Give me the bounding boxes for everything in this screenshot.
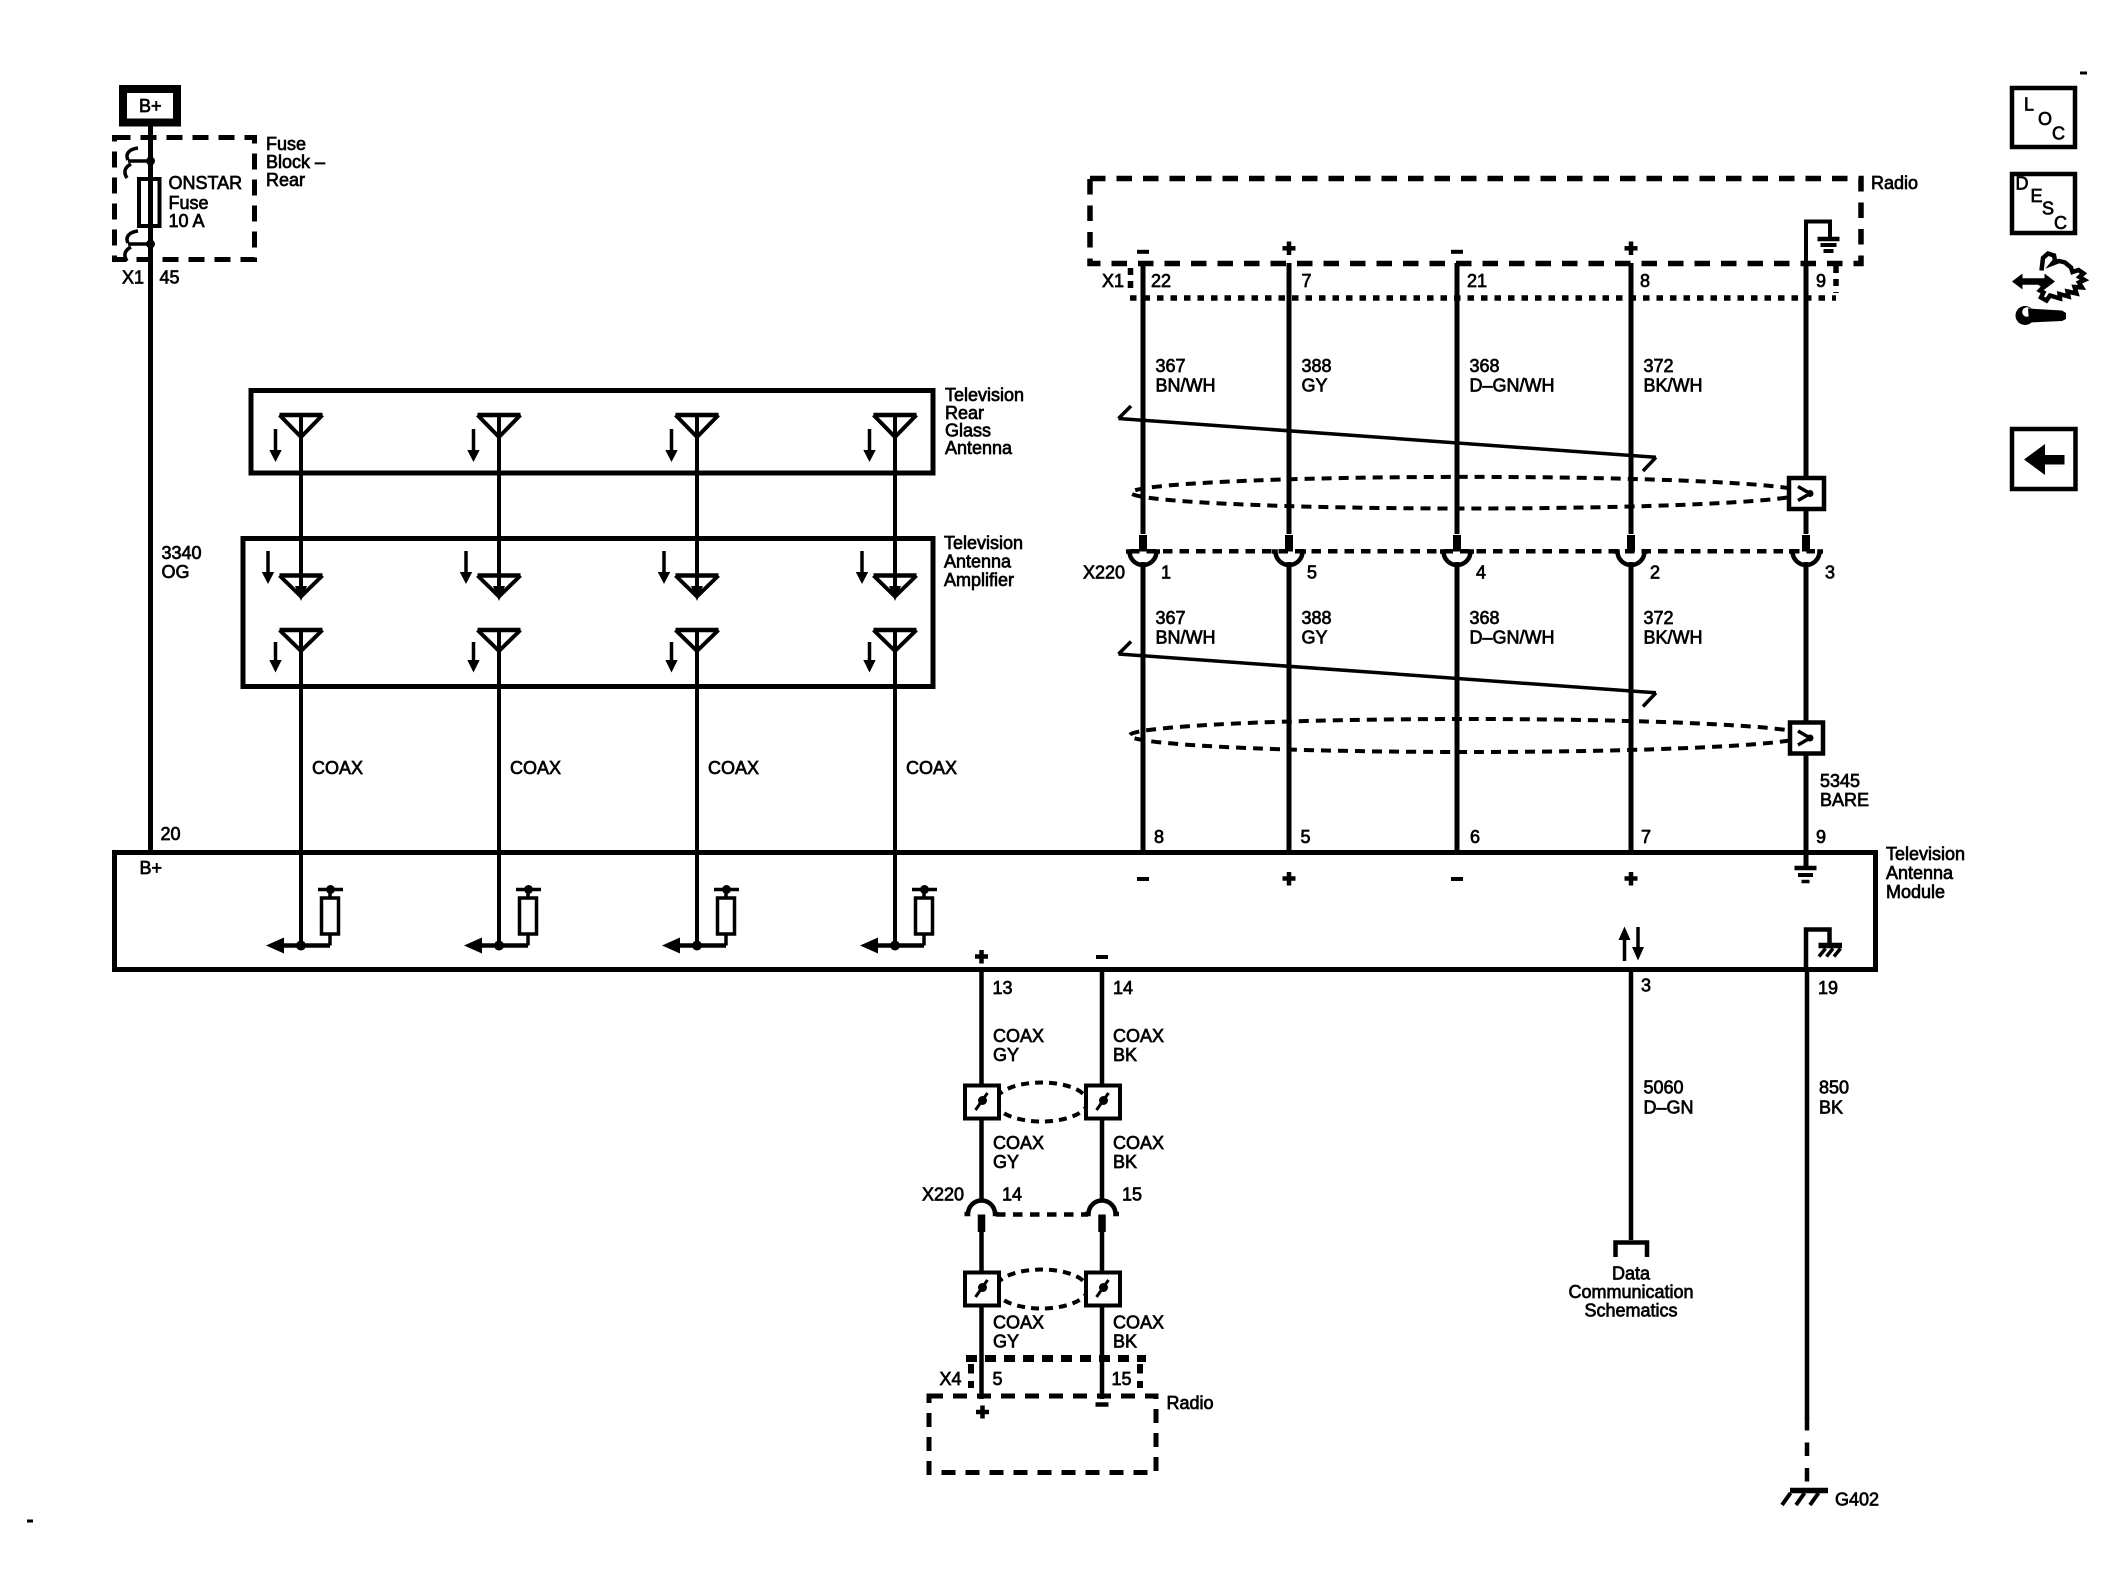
X220 lower terminal (socket + male pin): [1085, 1201, 1119, 1215]
svg-text:GY: GY: [1302, 628, 1328, 648]
svg-text:15: 15: [1122, 1185, 1142, 1205]
connector X220 lower band: [996, 1212, 1088, 1217]
radio dashed box: [1090, 179, 1861, 264]
in-line connector 1b: [1086, 1086, 1120, 1119]
svg-text:Amplifier: Amplifier: [944, 570, 1014, 590]
wire from X220 pin 1 to module: [1141, 562, 1146, 852]
svg-text:Schematics: Schematics: [1584, 1301, 1677, 1321]
svg-text:Television: Television: [945, 385, 1024, 405]
connector X1 dotted band: [1130, 295, 1836, 301]
antenna element amplifier row2 #4: [874, 628, 917, 633]
svg-text:10 A: 10 A: [169, 211, 205, 231]
in-line connector 2a: [965, 1273, 999, 1306]
antenna element amplifier row1 #1: [266, 551, 270, 574]
svg-text:BK: BK: [1113, 1152, 1137, 1172]
twisted pair pointer arrow 1: [1119, 419, 1657, 458]
page mark top right: [2080, 72, 2087, 75]
polarity minus at radio pin 22: [1137, 250, 1149, 254]
svg-text:OG: OG: [162, 562, 190, 582]
svg-text:Fuse: Fuse: [266, 134, 306, 154]
svg-text:COAX: COAX: [708, 758, 759, 778]
svg-text:Module: Module: [1886, 882, 1945, 902]
television rear glass antenna box: [251, 391, 933, 474]
module internal ground at pin 9: [1804, 852, 1809, 866]
coax wire segment 4a (rear glass antenna to amplifier row 1): [893, 415, 897, 589]
coax wire (module pin 14) segment d: [1100, 1305, 1105, 1399]
svg-text:22: 22: [1151, 271, 1171, 291]
X220 terminal pin 2 (male pin + socket): [1627, 535, 1635, 552]
coax wire segment 1a (rear glass antenna to amplifier row 1): [299, 415, 303, 589]
wire battery feed 3340 OG from B+ to module pin 20: [148, 126, 153, 852]
polarity plus at module pin 7: [1625, 876, 1638, 881]
svg-text:BARE: BARE: [1820, 790, 1869, 810]
coax wire segment 2b (amplifier to module): [497, 630, 501, 946]
coax wire (module pin 13) segment a: [979, 969, 984, 1086]
svg-text:1: 1: [1161, 563, 1171, 583]
coax wire segment 3a (rear glass antenna to amplifier row 1): [695, 415, 699, 589]
svg-text:BK: BK: [1113, 1332, 1137, 1352]
svg-text:372: 372: [1644, 356, 1674, 376]
radio internal ground at pin 9: [1806, 222, 1830, 264]
svg-text:5: 5: [993, 1369, 1003, 1389]
svg-text:G402: G402: [1835, 1490, 1879, 1510]
svg-text:COAX: COAX: [312, 758, 363, 778]
svg-text:BK/WH: BK/WH: [1644, 376, 1703, 396]
termination network (resistor + arrow) #4: [877, 943, 924, 948]
radio wire from X1 pin 21 to X220: [1455, 263, 1460, 534]
svg-text:5060: 5060: [1644, 1078, 1684, 1098]
svg-text:BK: BK: [1819, 1098, 1843, 1118]
polarity plus at radio pin 8: [1625, 246, 1638, 251]
svg-text:O: O: [2038, 109, 2052, 129]
svg-text:Fuse: Fuse: [169, 193, 209, 213]
television antenna module box: [115, 853, 1876, 970]
svg-text:COAX: COAX: [993, 1313, 1044, 1333]
antenna element amplifier row2 #1: [280, 628, 323, 633]
antenna element amplifier row2 #2: [478, 628, 521, 633]
svg-text:3: 3: [1825, 563, 1835, 583]
wire from X220 pin 2 to module: [1629, 562, 1634, 852]
coax wire segment 4b (amplifier to module): [893, 630, 897, 946]
antenna element amplifier row1 #3: [662, 551, 666, 574]
sidebar removal/installation icon: [2020, 278, 2047, 285]
coax wire (module pin 13) segment d: [979, 1305, 984, 1399]
svg-text:COAX: COAX: [1113, 1026, 1164, 1046]
coax wire (module pin 14) segment a: [1100, 969, 1105, 1086]
radio ground wire 5345 BARE (pin 9): [1804, 263, 1809, 534]
power symbol B+: [123, 89, 177, 123]
svg-text:7: 7: [1302, 271, 1312, 291]
svg-text:368: 368: [1470, 356, 1500, 376]
svg-text:13: 13: [993, 978, 1013, 998]
polarity plus at radio pin 5 (X4): [976, 1410, 989, 1415]
sidebar back-arrow box: [2012, 429, 2076, 489]
polarity minus at module pin 6: [1451, 877, 1463, 881]
module internal chassis ground (pin 19): [1806, 930, 1830, 968]
svg-text:5345: 5345: [1820, 771, 1860, 791]
svg-text:X1: X1: [1102, 271, 1124, 291]
twisted pair ellipse 1 (dashed): [1131, 477, 1803, 509]
coax wire (module pin 13) segment b: [979, 1118, 984, 1202]
ONSTAR fuse 10A: fuse body: [139, 179, 160, 226]
sidebar LOC box: [2012, 88, 2075, 147]
svg-text:BK: BK: [1113, 1045, 1137, 1065]
module internal data symbol (up/down arrows): [1623, 938, 1627, 961]
svg-text:COAX: COAX: [1113, 1133, 1164, 1153]
wire from X220 pin 3 to module: [1804, 562, 1809, 852]
coax wire (module pin 14) segment b: [1100, 1118, 1105, 1202]
antenna element rear glass #2: [478, 413, 521, 418]
in-line connector 2b: [1086, 1273, 1120, 1306]
svg-text:8: 8: [1640, 271, 1650, 291]
shield drain connector box 1: [1789, 478, 1824, 509]
polarity minus at radio pin 15 (X4): [1096, 1402, 1109, 1407]
svg-text:GY: GY: [993, 1045, 1019, 1065]
svg-text:COAX: COAX: [993, 1026, 1044, 1046]
polarity plus at module pin 13: [975, 954, 988, 959]
svg-text:BN/WH: BN/WH: [1156, 628, 1216, 648]
radio wire from X1 pin 8 to X220: [1629, 263, 1634, 534]
X220 terminal pin 4 (male pin + socket): [1453, 535, 1461, 552]
connector X220 dashed band: [1130, 549, 1815, 554]
svg-text:Television: Television: [944, 533, 1023, 553]
svg-text:D–GN/WH: D–GN/WH: [1470, 376, 1555, 396]
ONSTAR fuse 10A: bottom clip: [127, 231, 138, 243]
svg-text:Block –: Block –: [266, 152, 325, 172]
svg-text:368: 368: [1470, 608, 1500, 628]
polarity plus at module pin 5: [1283, 876, 1296, 881]
data wire 5060 D-GN (module pin 3): [1629, 969, 1634, 1240]
svg-text:5: 5: [1301, 827, 1311, 847]
twisted pair ellipse 2 (dashed): [1130, 719, 1806, 752]
svg-text:372: 372: [1644, 608, 1674, 628]
polarity minus at radio pin 21: [1451, 250, 1463, 254]
fuse block - rear dashed box: [115, 138, 255, 260]
svg-text:20: 20: [161, 824, 181, 844]
svg-text:X4: X4: [940, 1369, 962, 1389]
television antenna amplifier box: [243, 539, 933, 687]
svg-text:45: 45: [160, 268, 180, 288]
svg-text:S: S: [2042, 199, 2054, 219]
svg-text:B+: B+: [140, 858, 163, 878]
svg-text:GY: GY: [1302, 376, 1328, 396]
in-line connector 1a: [965, 1086, 999, 1119]
antenna element rear glass #4: [874, 413, 917, 418]
svg-text:Radio: Radio: [1167, 1393, 1214, 1413]
svg-text:Antenna: Antenna: [945, 438, 1013, 458]
coax wire (module pin 13) segment c: [979, 1230, 984, 1273]
svg-text:COAX: COAX: [906, 758, 957, 778]
coax wire segment 2a (rear glass antenna to amplifier row 1): [497, 415, 501, 589]
antenna element rear glass #3: [676, 413, 719, 418]
coax wire (module pin 14) segment c: [1100, 1230, 1105, 1273]
svg-text:4: 4: [1476, 563, 1486, 583]
radio wire from X1 pin 7 to X220: [1287, 263, 1292, 534]
sidebar DESC box: [2012, 174, 2075, 233]
termination network (resistor + arrow) #2: [481, 943, 528, 948]
termination network (resistor + arrow) #1: [283, 943, 330, 948]
svg-text:D–GN/WH: D–GN/WH: [1470, 628, 1555, 648]
svg-text:9: 9: [1816, 271, 1826, 291]
wrench part of removal icon: [2016, 306, 2035, 325]
radio wire from X1 pin 22 to X220: [1141, 263, 1146, 534]
antenna element rear glass #1: [280, 413, 323, 418]
svg-text:19: 19: [1818, 978, 1838, 998]
antenna element amplifier row1 #2: [464, 551, 468, 574]
svg-text:388: 388: [1302, 356, 1332, 376]
svg-text:COAX: COAX: [993, 1133, 1044, 1153]
svg-text:388: 388: [1302, 608, 1332, 628]
polarity minus at module pin 14: [1096, 955, 1108, 959]
svg-text:Data: Data: [1612, 1264, 1651, 1284]
svg-text:BN/WH: BN/WH: [1156, 376, 1216, 396]
in-line splice connector pair 1 (dashed loop): [996, 1083, 1088, 1122]
svg-text:6: 6: [1470, 827, 1480, 847]
svg-text:D: D: [2016, 174, 2029, 194]
svg-text:E: E: [2031, 186, 2043, 206]
svg-text:Communication: Communication: [1568, 1282, 1693, 1302]
in-line splice connector pair 2 (dashed loop): [996, 1270, 1088, 1309]
off-page reference bracket: [1616, 1243, 1648, 1258]
antenna element amplifier row1 #4: [860, 551, 864, 574]
svg-text:2: 2: [1650, 563, 1660, 583]
coax wire segment 3b (amplifier to module): [695, 630, 699, 946]
svg-text:X220: X220: [922, 1185, 964, 1205]
svg-text:3: 3: [1641, 976, 1651, 996]
termination network (resistor + arrow) #3: [679, 943, 726, 948]
svg-text:D–GN: D–GN: [1644, 1098, 1694, 1118]
svg-text:15: 15: [1112, 1369, 1132, 1389]
svg-text:9: 9: [1816, 827, 1826, 847]
svg-text:14: 14: [1113, 978, 1133, 998]
shield drain connector box 2: [1790, 723, 1823, 754]
polarity minus at module pin 8: [1137, 877, 1149, 881]
page mark bottom left: [27, 1520, 33, 1523]
twisted pair pointer arrow 2: [1119, 654, 1657, 693]
X220 terminal pin 5 (male pin + socket): [1285, 535, 1293, 552]
X220 lower terminal (socket + male pin): [965, 1201, 999, 1215]
svg-text:367: 367: [1156, 608, 1186, 628]
X220 terminal pin 3 (male pin + socket): [1802, 535, 1810, 552]
wire from X220 pin 4 to module: [1455, 562, 1460, 852]
svg-text:7: 7: [1641, 827, 1651, 847]
radio dashed box (bottom): [929, 1396, 1156, 1473]
svg-text:GY: GY: [993, 1332, 1019, 1352]
svg-text:COAX: COAX: [510, 758, 561, 778]
svg-text:850: 850: [1819, 1078, 1849, 1098]
svg-text:X1: X1: [122, 268, 144, 288]
svg-text:Antenna: Antenna: [1886, 863, 1954, 883]
coax wire segment 1b (amplifier to module): [299, 630, 303, 946]
antenna element amplifier row2 #3: [676, 628, 719, 633]
svg-text:21: 21: [1467, 271, 1487, 291]
svg-text:COAX: COAX: [1113, 1313, 1164, 1333]
svg-text:367: 367: [1156, 356, 1186, 376]
svg-text:BK/WH: BK/WH: [1644, 628, 1703, 648]
svg-text:Television: Television: [1886, 844, 1965, 864]
svg-text:14: 14: [1002, 1185, 1022, 1205]
ONSTAR fuse 10A: top clip: [127, 148, 138, 160]
svg-text:C: C: [2052, 124, 2065, 144]
ground wire 850 BK (module pin 19): [1805, 969, 1810, 1419]
svg-text:Radio: Radio: [1871, 173, 1918, 193]
svg-text:GY: GY: [993, 1152, 1019, 1172]
svg-text:Antenna: Antenna: [944, 552, 1012, 572]
connector X4 dotted band: [966, 1355, 1146, 1362]
svg-text:B+: B+: [139, 96, 162, 116]
svg-text:8: 8: [1154, 827, 1164, 847]
svg-text:3340: 3340: [162, 543, 202, 563]
polarity plus at radio pin 7: [1283, 246, 1296, 251]
svg-text:5: 5: [1307, 563, 1317, 583]
svg-text:L: L: [2024, 95, 2034, 115]
wire from X220 pin 5 to module: [1287, 562, 1292, 852]
X220 terminal pin 1 (male pin + socket): [1139, 535, 1147, 552]
svg-text:X220: X220: [1083, 563, 1125, 583]
ground G402 symbol: [1790, 1488, 1828, 1494]
svg-text:C: C: [2054, 213, 2067, 233]
svg-text:Rear: Rear: [266, 170, 305, 190]
svg-text:ONSTAR: ONSTAR: [169, 173, 243, 193]
